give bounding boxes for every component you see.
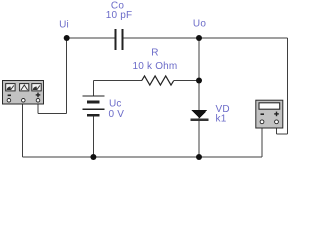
junction: battery to ground bus — [90, 154, 96, 160]
svg-text:0 V: 0 V — [109, 109, 125, 120]
wire: Ui vertical down — [66, 38, 68, 114]
node Uo — [193, 19, 206, 42]
wire: voltmeter minus terminal down to bus — [261, 128, 263, 157]
svg-text:10 pF: 10 pF — [106, 10, 133, 21]
instrument: voltmeter (right) — [256, 100, 283, 128]
junction: diode to ground bus — [196, 154, 202, 160]
wire: meter middle terminal down to ground bus — [22, 104, 24, 157]
wire: battery bottom lead down to bus — [92, 115, 94, 157]
wire: resistor right lead to Uo branch — [174, 80, 199, 82]
resistor R zigzag — [142, 76, 174, 85]
svg-text:k1: k1 — [216, 114, 227, 125]
node Ui — [59, 20, 70, 42]
wire: battery top lead up — [92, 81, 94, 96]
wire: horizontal to meter + terminal — [38, 113, 67, 115]
wire: up to voltmeter plus terminal — [276, 128, 278, 134]
wire: bottom ground bus — [23, 156, 263, 158]
wire top rail: Ui node to capacitor left plate — [67, 37, 115, 39]
svg-text:Ui: Ui — [59, 20, 69, 31]
wire: up into meter + terminal — [37, 104, 39, 114]
wire: Uo vertical branch (top rail to ground bus) — [198, 38, 200, 157]
svg-text:R: R — [151, 48, 158, 59]
svg-text:10 k Ohm: 10 k Ohm — [133, 61, 178, 72]
capacitor Co plates — [116, 29, 123, 50]
instrument: 3-channel meter (left) — [3, 81, 44, 105]
wire top rail: capacitor right plate to top-right corner — [124, 37, 288, 39]
junction: resistor/diode node — [196, 78, 202, 84]
battery Uc — [82, 96, 104, 116]
svg-text:Uo: Uo — [193, 19, 206, 30]
wire: bottom of voltmeter horizontal — [277, 133, 288, 135]
wire: battery corner to resistor left lead — [93, 80, 141, 82]
wire: right side vertical down to voltmeter — [287, 38, 289, 134]
diode VD — [190, 110, 208, 120]
